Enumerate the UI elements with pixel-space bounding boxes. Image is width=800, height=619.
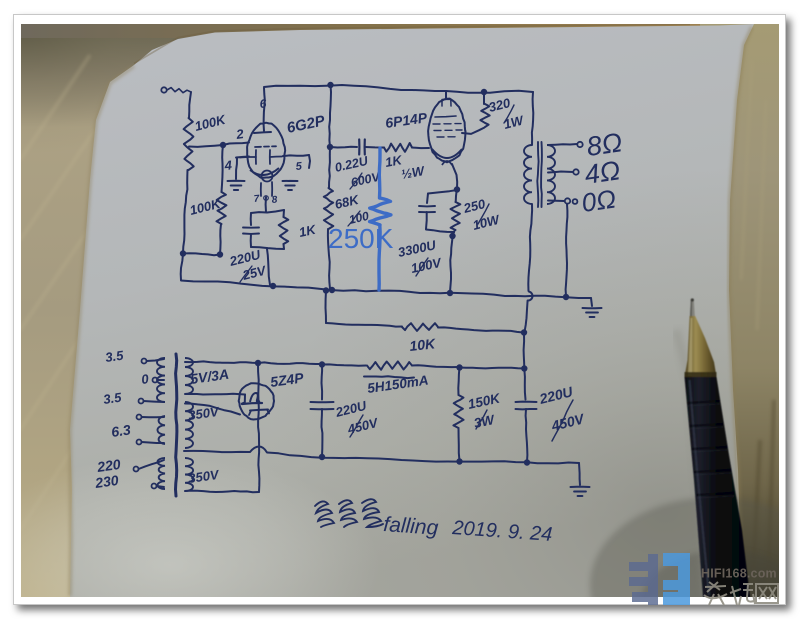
transformer T2 primary: [524, 145, 532, 204]
svg-text:falling: falling: [383, 513, 440, 540]
resistor R7 250/10W: [456, 190, 457, 202]
signature chinese: [315, 501, 334, 527]
tube U3 lower bar: [250, 410, 268, 411]
ground rail: [181, 281, 591, 299]
resistor R1 100K: [184, 118, 194, 170]
wire U3 bottom: [258, 401, 259, 492]
svg-text:3.5: 3.5: [104, 347, 125, 364]
dark streaks right wood: [752, 400, 774, 597]
blue resistor 250K: [378, 148, 382, 198]
wire cathode to RC: [265, 197, 267, 212]
capacitor C4 220U/450V: [321, 365, 324, 400]
input terminal J1: [161, 87, 166, 92]
tube U1 inner bracket 1: [240, 156, 256, 159]
ground pin4: [228, 180, 245, 182]
transformer T2 core: [537, 142, 538, 207]
PSU mid line: [184, 451, 250, 452]
wire 350a to U3: [185, 404, 240, 415]
resistor R9 150K/3W: [458, 368, 459, 396]
tube U1 plate lead pin6: [264, 88, 265, 131]
paper dark zone near pen: [590, 497, 800, 619]
junction C5 bottom: [524, 459, 530, 465]
terminal 0: [153, 378, 158, 383]
T1 primary winding 1: [157, 358, 165, 402]
terminal 3.5b: [139, 399, 144, 404]
junction rail OPT 0ohm: [563, 294, 569, 300]
tube U3 plate bar: [242, 403, 262, 404]
wire to choke: [322, 364, 366, 365]
wood top strip: [21, 24, 779, 38]
junction U3 top: [255, 360, 261, 366]
T1 secondary 350b: [185, 458, 193, 491]
resistor R2 100K: [222, 145, 224, 192]
wire 5V to U3: [185, 393, 245, 396]
wire 10K left: [326, 323, 402, 327]
resistor R8 10K: [402, 323, 438, 331]
wire plate column: [329, 85, 331, 147]
pen grooves: [687, 401, 734, 495]
tube U1 inner bracket 2: [269, 150, 271, 164]
watermark (on top, bottom-right): [629, 553, 778, 605]
wire 0ohm to rail: [566, 204, 568, 296]
T1 winding 220: [158, 458, 165, 489]
junction B+ 10K: [521, 329, 527, 335]
svg-text:10K: 10K: [409, 335, 437, 354]
tube U2 6P14P envelope: [428, 99, 465, 163]
tube U3 filament: [250, 393, 260, 402]
node below R7: [449, 233, 455, 239]
wire 10K right: [438, 327, 523, 332]
wire to ground rail: [181, 254, 183, 280]
junction R9 bottom: [456, 458, 462, 464]
wire cathode left: [428, 190, 457, 194]
resistor R3 1K: [283, 210, 286, 217]
node plate: [327, 144, 333, 150]
wire OPT primary bottom: [528, 204, 532, 291]
wire RC to rail: [267, 249, 270, 285]
terminal 6.3b: [137, 440, 142, 445]
pen: [685, 298, 751, 597]
wire plate to cap: [330, 146, 357, 149]
svg-text:HIFI168.com: HIFI168.com: [701, 567, 777, 581]
pen needle tip: [690, 300, 695, 317]
resistor R6 320/1W: [481, 89, 487, 95]
tap 0 ohm: [548, 200, 564, 203]
cathode RC loop top: [251, 210, 284, 213]
wire rail to ground: [591, 298, 592, 306]
choke core bar: [364, 376, 414, 378]
wire U3 top: [257, 363, 260, 401]
wire input down: [189, 92, 191, 118]
svg-text:230: 230: [93, 472, 120, 491]
tube U1 cathode circle: [262, 171, 273, 182]
svg-text:0Ω: 0Ω: [580, 183, 618, 217]
wire R4 to grid: [412, 147, 429, 150]
pen body highlight: [690, 380, 710, 595]
tube U2 bottom arc: [432, 149, 462, 158]
terminal 230: [152, 484, 157, 489]
T1 secondary 5V: [185, 358, 193, 394]
wire to PSU ground: [579, 463, 580, 485]
tube U2 plate bar: [435, 116, 456, 117]
cathode RC loop bottom: [251, 247, 284, 249]
watermark chinese outline glyphs: [704, 582, 778, 605]
B+ line mid: [258, 362, 322, 364]
loop bottom C3: [426, 230, 454, 233]
resistor R5 68K: [329, 147, 330, 188]
ground g2: [283, 180, 298, 182]
capacitor C1 plates: [250, 213, 252, 225]
tube U2 top pin: [445, 92, 447, 99]
node A grid: [220, 142, 226, 148]
capacitor C5 220U/450V: [524, 369, 525, 400]
junction rail 68K: [329, 287, 335, 293]
paper left edge shadow: [70, 66, 134, 596]
terminal 3.5a: [142, 359, 147, 364]
wire B+ down to OPT: [532, 92, 533, 145]
tap 8 ohm: [548, 144, 577, 145]
svg-text:3.5: 3.5: [102, 389, 123, 406]
tap 4 ohm: [548, 172, 573, 173]
terminal 6.3a: [137, 415, 142, 420]
wood grain left: [20, 55, 95, 530]
wire choke right: [412, 365, 459, 367]
capacitor C2 0.22U coupling: [358, 140, 360, 155]
wire cap to R4: [366, 146, 385, 149]
paper top edge shadow on wood: [134, 25, 690, 64]
transformer T1 core: [176, 354, 177, 496]
wire U2 screen: [462, 128, 485, 134]
tube U1 grid dashes: [255, 146, 261, 148]
tube U1 g2 hook: [283, 155, 309, 156]
wire grid node horizontal: [189, 143, 249, 147]
tube U1 6G2P envelope: [247, 123, 285, 178]
tube U2 cathode loop: [442, 161, 452, 165]
svg-text:6.3: 6.3: [110, 421, 132, 440]
tube U2 grid dashes: [433, 123, 440, 125]
pen body: [685, 377, 751, 597]
ground PSU: [571, 486, 590, 488]
wire R1 to node: [183, 170, 188, 253]
top rail: [264, 85, 533, 93]
paper shading bottom-right: [70, 24, 754, 597]
junction C4 bottom: [319, 454, 325, 460]
node bottom-left: [180, 250, 186, 256]
wire B+ node down: [523, 333, 526, 369]
T1 winding 6.3: [157, 416, 165, 444]
pen shadow on paper: [676, 330, 706, 597]
junction top rail plate col: [327, 82, 333, 88]
ground main: [583, 307, 602, 309]
T1 secondary 350a: [185, 402, 193, 448]
tube U1 cathode arc: [250, 168, 279, 175]
paper right edge shadow: [729, 27, 752, 597]
transformer T2 secondary: [547, 145, 555, 204]
junction B+ filter: [521, 365, 527, 371]
node U2 cathode: [454, 186, 460, 192]
watermark logo right glyph: [663, 553, 690, 605]
junction rail cathode: [270, 283, 276, 289]
wood right strip: [700, 24, 779, 597]
capacitor C3 3300U: [427, 194, 428, 204]
B+ line left: [185, 361, 258, 363]
paper sheet: [70, 24, 754, 597]
wire U2 cathode down: [452, 164, 457, 189]
wire rail to 10K: [323, 287, 329, 293]
inductor L1 choke 5H: [367, 361, 412, 369]
tube U1 cathode legs pins 7 8: [260, 183, 262, 196]
wire 350b bottom: [185, 491, 259, 493]
terminal 220: [134, 467, 139, 472]
resistor R4 1K/2W: [384, 143, 412, 152]
svg-text:250K: 250K: [328, 223, 394, 254]
wire to B+ node: [460, 368, 525, 369]
watermark logo left glyph: [629, 554, 658, 605]
junction rail output cathode: [447, 290, 453, 296]
tube U3 5Z4P envelope: [239, 383, 274, 419]
pen cone: [685, 316, 717, 377]
